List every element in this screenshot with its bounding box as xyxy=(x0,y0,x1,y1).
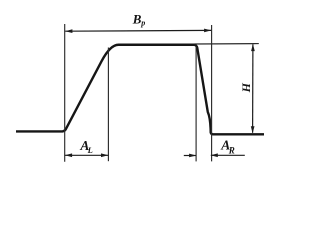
wire: H top extension line at plateau level xyxy=(195,43,259,45)
dimension H line with arrows xyxy=(251,44,255,133)
svg-text:R: R xyxy=(228,145,235,155)
node: right extension line x=211.6 (B_p right / A_R right) xyxy=(211,25,213,161)
node: extension line x=108.4 (A_L right, from pulse top-left corner) xyxy=(107,48,109,162)
dimension A_R arrows (outside) xyxy=(184,153,245,157)
svg-text:L: L xyxy=(87,145,93,155)
wire: pulse waveform (baseline left, rising edge, plateau, falling edge, baseline right) xyxy=(16,45,264,135)
svg-text:p: p xyxy=(140,19,145,28)
node: left extension line x=64.7 (B_p left / A_L left) xyxy=(64,24,66,162)
dimension A_L line with arrows xyxy=(65,153,109,157)
svg-text:H: H xyxy=(239,82,253,93)
dimension B_p line with arrows xyxy=(65,29,211,33)
node: extension line x=196 (A_R left, from pulse top-right corner) xyxy=(195,47,197,162)
